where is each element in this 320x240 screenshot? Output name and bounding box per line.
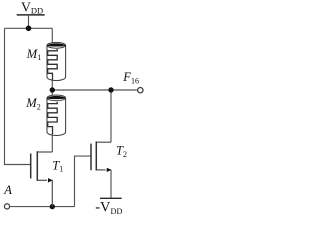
wire T2 drain lead [110, 90, 112, 142]
memristor M2 [47, 95, 66, 135]
node junction dot on A wire [50, 204, 55, 209]
terminal F16 [138, 88, 143, 93]
wire M2 bottom lead [51, 134, 53, 153]
svg-text:A: A [3, 183, 12, 197]
node junction dot T2 drain on F16 wire [108, 87, 113, 92]
transistor T2 [91, 141, 111, 170]
T1 source arrow [48, 178, 53, 182]
wire VDD stub [28, 15, 30, 28]
wire M1 bottom lead [51, 80, 53, 91]
wire M2 top lead [51, 90, 53, 97]
negative supply bar [100, 197, 122, 199]
memristor M1 [47, 42, 66, 80]
wire T2 gate link [75, 156, 92, 207]
node junction dot top [26, 26, 32, 32]
wire left rail [5, 28, 31, 164]
terminal A [4, 204, 9, 209]
transistor T1 [31, 151, 53, 206]
wire A horizontal [10, 206, 74, 208]
VDD supply bar [17, 14, 45, 16]
T2 source arrow [107, 168, 112, 172]
node junction dot between M1 and M2 [50, 87, 55, 92]
wire M1 top lead [51, 28, 53, 44]
wire F16 horizontal [52, 89, 137, 91]
wire T2 source lead [110, 170, 112, 198]
wire top horizontal [5, 27, 53, 29]
